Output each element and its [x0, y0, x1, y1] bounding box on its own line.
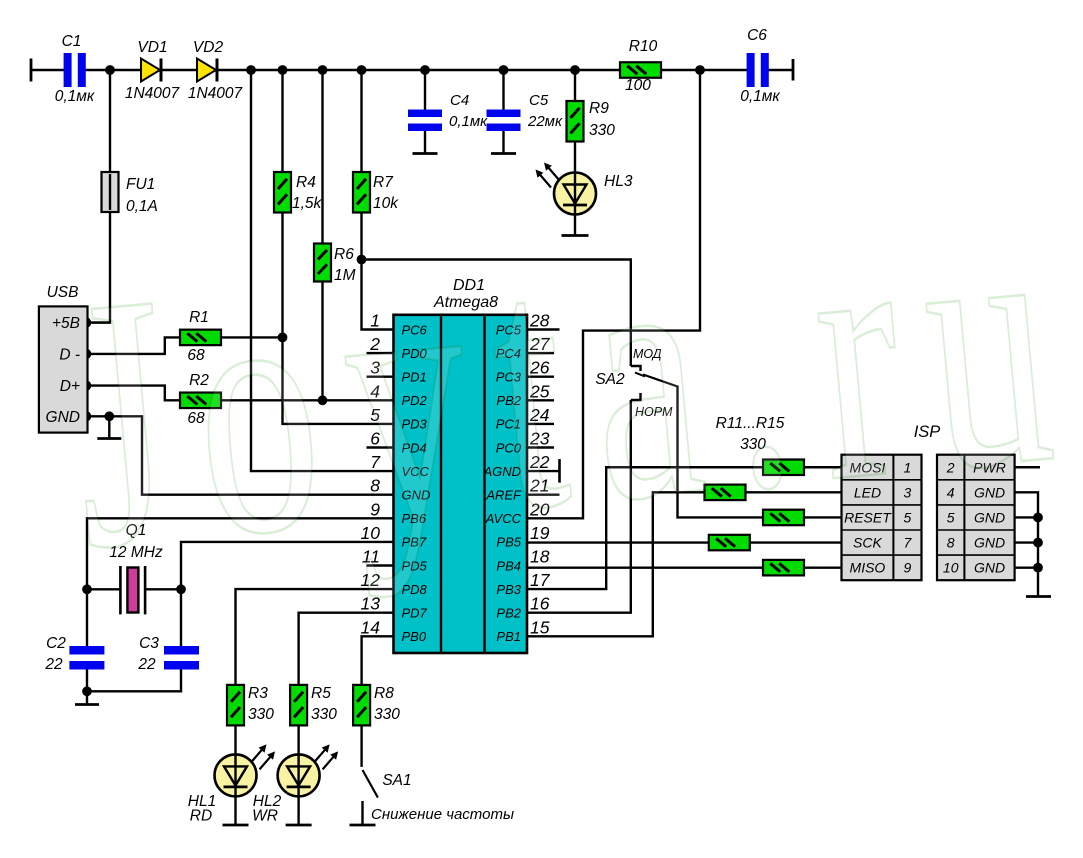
capacitor C5	[487, 92, 563, 131]
wire top rail right segment	[661, 69, 747, 71]
wire pin12 to R3	[236, 589, 394, 685]
svg-text:22: 22	[44, 656, 63, 673]
junction rail VCC column	[246, 65, 256, 75]
svg-text:WR: WR	[252, 808, 278, 825]
wire MOSI resistor to ISP	[804, 466, 842, 468]
wire pin17 to MOSI	[527, 467, 763, 589]
label SA1 function	[371, 806, 514, 823]
svg-text:22: 22	[137, 656, 156, 673]
wire HL3 to ground	[574, 215, 576, 236]
svg-text:330: 330	[248, 706, 274, 723]
label ISP	[914, 423, 941, 441]
label R11...R15	[716, 415, 785, 453]
op-amp U1 IC DD1 Atmega8 body	[394, 277, 528, 653]
wire C2 stem	[86, 589, 88, 646]
node B junction R7-SA2	[357, 255, 367, 265]
ground C4	[413, 152, 438, 155]
resistor R9	[567, 100, 616, 142]
wire R7 column to pin1	[362, 213, 394, 330]
pin 25 PB2	[496, 381, 554, 408]
junction USB ground	[104, 411, 114, 421]
wire USB ground stem	[108, 416, 110, 438]
wire C6 to right terminal	[769, 69, 794, 71]
resistor R5	[290, 685, 337, 726]
wire FU1 column upper	[109, 70, 111, 172]
wire C2 bottom	[86, 670, 88, 705]
wire AVCC net	[527, 70, 700, 518]
wire top rail left segment	[31, 69, 64, 71]
wire SA2 NORM to pin16	[527, 400, 631, 613]
wire R4 column to node A and pin5	[283, 213, 394, 424]
svg-text:0,1A: 0,1A	[126, 198, 158, 215]
ground ISP	[1026, 595, 1051, 598]
svg-text:330: 330	[589, 122, 615, 139]
resistor R10	[620, 38, 661, 94]
connector ISP left	[842, 455, 922, 581]
wire SCK resistor to ISP	[750, 541, 842, 543]
resistor R6	[314, 244, 356, 285]
svg-text:16: 16	[530, 594, 550, 614]
switch SA1	[363, 770, 412, 798]
wire pin15 to LED row	[527, 492, 705, 636]
svg-text:FU1: FU1	[126, 176, 155, 193]
wire HL1 to ground	[234, 796, 236, 825]
pin 20 AVCC	[485, 499, 550, 526]
wire LED resistor to ISP	[746, 491, 842, 493]
svg-text:R8: R8	[374, 685, 394, 702]
ground crystal	[75, 703, 99, 706]
resistor R3	[227, 685, 274, 726]
wire MISO resistor to ISP	[804, 566, 842, 568]
wire C3 bottom to junction	[87, 670, 181, 692]
wire pin9 to crystal left	[87, 518, 394, 589]
connector ISP right	[937, 455, 1015, 581]
resistor R4	[274, 172, 323, 213]
svg-text:Снижение частоты: Снижение частоты	[371, 806, 514, 823]
svg-text:C3: C3	[139, 635, 159, 652]
junction USB D+	[81, 380, 92, 391]
wire pin19 to SCK resistor	[527, 541, 709, 543]
junction rail R7	[357, 65, 367, 75]
LED HL3	[536, 163, 633, 215]
junction rail FU1	[105, 65, 115, 75]
watermark Joyta.ru	[56, 136, 1083, 624]
svg-text:C4: C4	[450, 92, 469, 109]
pin 19 PB5	[496, 523, 549, 550]
pin 11 PD5	[362, 547, 428, 574]
pin 22 AGND	[482, 452, 559, 483]
resistor R15	[763, 560, 804, 576]
resistor R2	[180, 372, 221, 427]
wire C4 to ground	[424, 131, 426, 154]
ground HL1	[223, 824, 249, 827]
svg-text:R5: R5	[311, 685, 331, 702]
wire R2 to pin4	[221, 399, 394, 401]
capacitor C1	[55, 33, 95, 105]
pin 28 PC5	[496, 311, 560, 338]
resistor R1	[180, 309, 221, 364]
diode VD2	[188, 39, 244, 102]
svg-text:C1: C1	[62, 33, 82, 50]
junction rail R4	[278, 65, 288, 75]
resistor R13	[763, 510, 804, 526]
wire R6 column upper	[321, 70, 323, 244]
svg-text:330: 330	[311, 706, 337, 723]
wire R4 column upper	[281, 70, 283, 172]
junction rail R6	[318, 65, 328, 75]
svg-text:9: 9	[904, 560, 912, 576]
wire R5 to HL2	[297, 725, 299, 754]
resistor R7	[353, 172, 399, 213]
svg-text:R4: R4	[296, 174, 316, 191]
wire node B to SA2 MOD contact	[362, 260, 631, 367]
wire FU1 column lower to +5B	[86, 212, 110, 323]
svg-text:0,1мк: 0,1мк	[740, 88, 780, 105]
junction ISP gnd row10	[1033, 563, 1043, 573]
svg-text:PB0: PB0	[402, 629, 427, 644]
ground HL3	[562, 234, 589, 237]
wire D- to R1	[86, 337, 180, 354]
svg-text:C5: C5	[529, 92, 549, 109]
wire C5 stem	[502, 70, 504, 110]
svg-text:RD: RD	[190, 808, 212, 825]
ground HL2	[286, 824, 312, 827]
crystal Q1 12MHz	[109, 522, 163, 614]
resistor R11	[763, 460, 804, 476]
pin 14 PB0	[361, 617, 427, 644]
pin 2 PD0	[367, 334, 428, 361]
wire pin14 to R8	[362, 636, 394, 685]
svg-text:VD2: VD2	[193, 39, 224, 56]
pin 17 PB3	[496, 570, 550, 597]
junction ISP gnd row5	[1033, 513, 1043, 523]
connector USB	[39, 284, 88, 433]
wire top rail main segment	[86, 69, 621, 71]
junction C2-C3 ground	[82, 686, 92, 696]
wire SA2 arm to RESET row	[678, 386, 764, 518]
fuse FU1	[102, 172, 158, 215]
wire GND pin to ground and pin8	[86, 416, 394, 494]
pin 23 PC0	[496, 429, 554, 456]
svg-text:GND: GND	[974, 560, 1005, 576]
wire C4 stem	[424, 70, 426, 110]
resistor R14	[709, 535, 750, 551]
resistor R8	[353, 685, 400, 726]
junction rail C4	[420, 65, 430, 75]
switch SA2	[595, 347, 677, 419]
pin 12 PD8	[361, 570, 428, 597]
wire HL2 to ground	[297, 796, 299, 825]
capacitor C2	[44, 635, 104, 673]
junction ISP gnd row8	[1033, 538, 1043, 548]
wire RESET resistor to ISP	[804, 516, 842, 518]
svg-text:100: 100	[625, 77, 651, 94]
terminal left	[30, 59, 33, 82]
wire PWR stub	[1015, 466, 1040, 468]
LED HL1	[188, 744, 275, 824]
svg-text:C6: C6	[747, 27, 767, 44]
junction rail C5	[499, 65, 509, 75]
wire pin13 to R5	[299, 613, 394, 685]
svg-text:R3: R3	[248, 685, 268, 702]
wire R9 stem	[574, 70, 576, 101]
pin 9 PB6	[370, 499, 427, 526]
wire R1 to node A	[221, 336, 283, 338]
wire pin10 to crystal right	[145, 542, 393, 589]
ground C5	[491, 152, 516, 155]
svg-text:15: 15	[530, 617, 550, 637]
junction rail R10-C6	[695, 65, 705, 75]
svg-text:PB1: PB1	[496, 629, 521, 644]
node junction R2-R6	[318, 395, 328, 405]
pin 13 PD7	[361, 594, 428, 621]
wire R8 to SA1	[360, 725, 362, 767]
pin 16 PB2	[496, 594, 549, 621]
wire +5B pin	[86, 321, 110, 323]
capacitor C3	[137, 635, 199, 673]
svg-text:PB2: PB2	[496, 606, 521, 621]
wire R3 to HL1	[234, 725, 236, 754]
svg-text:22мк: 22мк	[527, 113, 563, 130]
pin 7 VCC	[370, 452, 429, 479]
junction USB D-	[81, 349, 92, 360]
svg-text:1N4007: 1N4007	[188, 85, 244, 102]
ground SA1	[350, 824, 376, 827]
resistor R12	[705, 485, 746, 501]
svg-text:10: 10	[943, 560, 959, 576]
junction USB +5B	[81, 317, 92, 328]
pin 4 PD2	[370, 381, 427, 408]
svg-text:VD1: VD1	[137, 39, 167, 56]
junction rail R9	[570, 65, 580, 75]
pin 8 GND	[370, 476, 430, 503]
capacitor C6	[740, 27, 780, 105]
wire SA1 lower contact to ground	[361, 801, 363, 825]
junction crystal left	[82, 584, 92, 594]
diode VD1	[125, 39, 181, 102]
pin 18 PB4	[496, 547, 549, 574]
svg-text:0,1мк: 0,1мк	[55, 88, 95, 105]
capacitor C4	[408, 92, 488, 131]
terminal right	[792, 59, 795, 81]
junction crystal right	[176, 584, 186, 594]
wire R7 column upper	[360, 70, 362, 172]
svg-text:R7: R7	[373, 174, 394, 191]
svg-text:C2: C2	[46, 635, 66, 652]
pin 24 PC1	[496, 405, 554, 432]
wire C5 to ground	[502, 131, 504, 154]
svg-text:R10: R10	[629, 38, 658, 55]
LED HL2	[252, 744, 338, 824]
ground USB	[97, 437, 121, 440]
junction USB GND	[81, 411, 92, 422]
svg-text:0,1мк: 0,1мк	[449, 113, 488, 130]
pin 15 PB1	[496, 617, 549, 644]
svg-text:R9: R9	[589, 100, 609, 117]
svg-text:330: 330	[374, 706, 400, 723]
pin 6 PD4	[367, 429, 427, 456]
svg-text:MISO: MISO	[850, 560, 886, 576]
wire VCC column rail to pin7	[251, 70, 394, 471]
wire R6 column lower	[321, 282, 323, 401]
wire pin18 to MISO resistor	[527, 566, 763, 568]
pin 5 PD3	[370, 405, 427, 432]
wire GND row10	[1015, 566, 1038, 568]
wire GND row5	[1015, 516, 1038, 518]
svg-text:1N4007: 1N4007	[125, 85, 181, 102]
pin 10 PB7	[361, 523, 427, 550]
wire GND row8	[1015, 541, 1038, 543]
pin 21 AREF	[485, 476, 559, 503]
svg-text:SA1: SA1	[382, 772, 411, 789]
wire R9 to HL3	[574, 142, 576, 173]
pin 26 PC3	[496, 358, 554, 385]
pin 3 PD1	[367, 358, 427, 385]
node A junction R1-R4	[278, 333, 288, 343]
wire D+ to R2	[86, 386, 180, 401]
svg-text:PD7: PD7	[402, 606, 428, 621]
pin 27 PC4	[496, 334, 554, 361]
svg-text:14: 14	[361, 617, 381, 637]
wire C3 stem	[180, 589, 182, 646]
pin 1 PC6	[370, 311, 427, 338]
wire ISP ground bus	[1015, 492, 1038, 596]
